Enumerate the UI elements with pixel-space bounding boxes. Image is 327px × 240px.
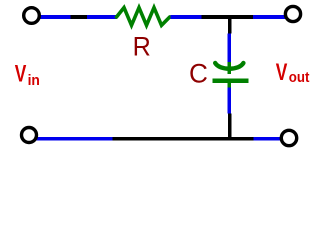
wire bottom-left blue segment xyxy=(37,137,113,141)
svg-text:in: in xyxy=(28,72,40,89)
capacitor C curved plate xyxy=(215,63,243,69)
capacitor C flat plate xyxy=(213,79,249,83)
wire capacitor top lead blue xyxy=(227,34,231,64)
terminal bottom-left xyxy=(22,128,37,143)
capacitor C bottom lead stub green xyxy=(227,83,231,88)
svg-text:C: C xyxy=(189,58,208,88)
wire bottom black segment xyxy=(112,137,253,141)
wire bottom-right blue segment xyxy=(253,137,280,141)
wire top black segment xyxy=(71,15,87,19)
terminal top-right xyxy=(285,6,300,21)
svg-text:out: out xyxy=(289,69,310,86)
svg-text:V: V xyxy=(276,59,288,86)
wire top-right blue segment xyxy=(253,15,286,19)
capacitor C top lead stub green xyxy=(227,62,231,74)
svg-text:R: R xyxy=(133,32,151,62)
svg-text:V: V xyxy=(15,61,27,88)
wire capacitor bottom lead black xyxy=(228,114,232,141)
resistor R xyxy=(117,8,170,26)
terminal bottom-right xyxy=(281,130,296,145)
wire top-left blue segment 1 xyxy=(40,15,71,19)
node top junction (black stub down) xyxy=(228,17,232,34)
wire top-middle blue segment xyxy=(171,15,202,19)
terminal top-left xyxy=(24,8,40,24)
wire top junction black segment xyxy=(201,15,253,19)
wire capacitor bottom lead blue xyxy=(227,87,231,113)
wire top-left blue segment 2 xyxy=(87,15,117,19)
